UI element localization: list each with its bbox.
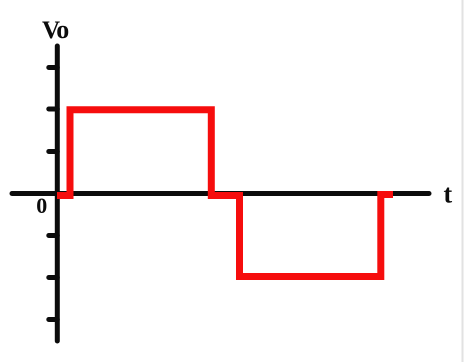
faint page border line xyxy=(462,0,464,362)
svg-text:t: t xyxy=(444,180,453,209)
horizontal axis (t axis) xyxy=(12,191,429,196)
square wave Vo(t) xyxy=(57,110,393,277)
tick +1 xyxy=(49,149,58,154)
tick +3 xyxy=(49,65,58,70)
svg-text:0: 0 xyxy=(36,193,47,218)
tick -1 xyxy=(49,233,58,238)
tick -3 xyxy=(49,317,58,322)
svg-text:o: o xyxy=(56,15,69,44)
vertical axis (Vo axis) xyxy=(55,46,60,341)
tick -2 xyxy=(49,275,58,280)
tick +2 xyxy=(49,107,58,112)
